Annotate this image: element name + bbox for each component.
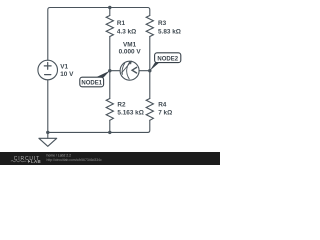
wire V1 bottom to ground junction [47,80,49,133]
resistor R4 [146,99,153,121]
wire bottom rail [48,131,110,133]
wire R2 top stub [109,71,111,99]
NODE2 flag pointer [150,62,160,70]
svg-text:LAB: LAB [31,159,41,164]
node junction dot bottom-mid [108,131,111,134]
wire top-left rail (V1 top to top junction) [48,8,110,61]
V1 plus sign [44,63,51,70]
voltmeter VM1 body [120,61,139,80]
svg-text:4.3 kΩ: 4.3 kΩ [117,29,136,36]
voltmeter VM1 gauge arcs [122,63,125,74]
wire top-right (junction to R3 top) [110,8,150,16]
voltage source V1 body [38,60,58,80]
resistor R3 [146,16,153,37]
wire R4 bottom with corner to bottom rail [110,120,150,132]
svg-text:0.000 V: 0.000 V [119,49,142,56]
wire R3 bottom through node2 junction to R4 top [149,37,151,99]
voltmeter VM1 V glyph [132,67,137,73]
svg-text:5.83 kΩ: 5.83 kΩ [158,29,181,36]
NODE1 label box [80,77,104,87]
wire R1 top stub [109,8,111,16]
svg-text:V1: V1 [60,63,68,70]
node junction dot NODE1 [108,69,111,72]
NODE2 label box [155,53,181,63]
resistor R2 [106,99,113,121]
svg-text:7 kΩ: 7 kΩ [158,110,172,117]
node junction dot top [108,6,111,9]
node junction dot bottom-left [46,131,49,134]
wire voltmeter right lead [139,70,150,72]
svg-text:VM1: VM1 [123,42,137,49]
V1 minus sign [45,74,51,76]
watermark logo zigzag [11,161,26,162]
svg-text:R2: R2 [117,102,126,109]
svg-text:NODE2: NODE2 [157,56,178,62]
svg-text:10 V: 10 V [60,71,74,78]
voltmeter VM1 needle [122,61,132,73]
node junction dot NODE2 [148,69,151,72]
watermark logo bolt [28,159,31,163]
wire R2 bottom [109,120,111,132]
NODE1 flag pointer [96,71,110,78]
svg-text:5.163 kΩ: 5.163 kΩ [117,110,143,117]
svg-text:R1: R1 [117,20,126,27]
resistor R1 [106,16,113,37]
svg-text:http://circuitlab.com/c/b56734: http://circuitlab.com/c/b567346d334c [47,158,103,162]
svg-text:R4: R4 [158,102,167,109]
wire voltmeter left lead [110,70,120,72]
svg-text:R3: R3 [158,20,167,27]
ground stub [47,132,49,138]
svg-text:NODE1: NODE1 [81,81,102,87]
watermark bar [0,152,220,165]
wire R1 bottom to node1 junction [109,37,111,71]
ground symbol [39,138,57,146]
